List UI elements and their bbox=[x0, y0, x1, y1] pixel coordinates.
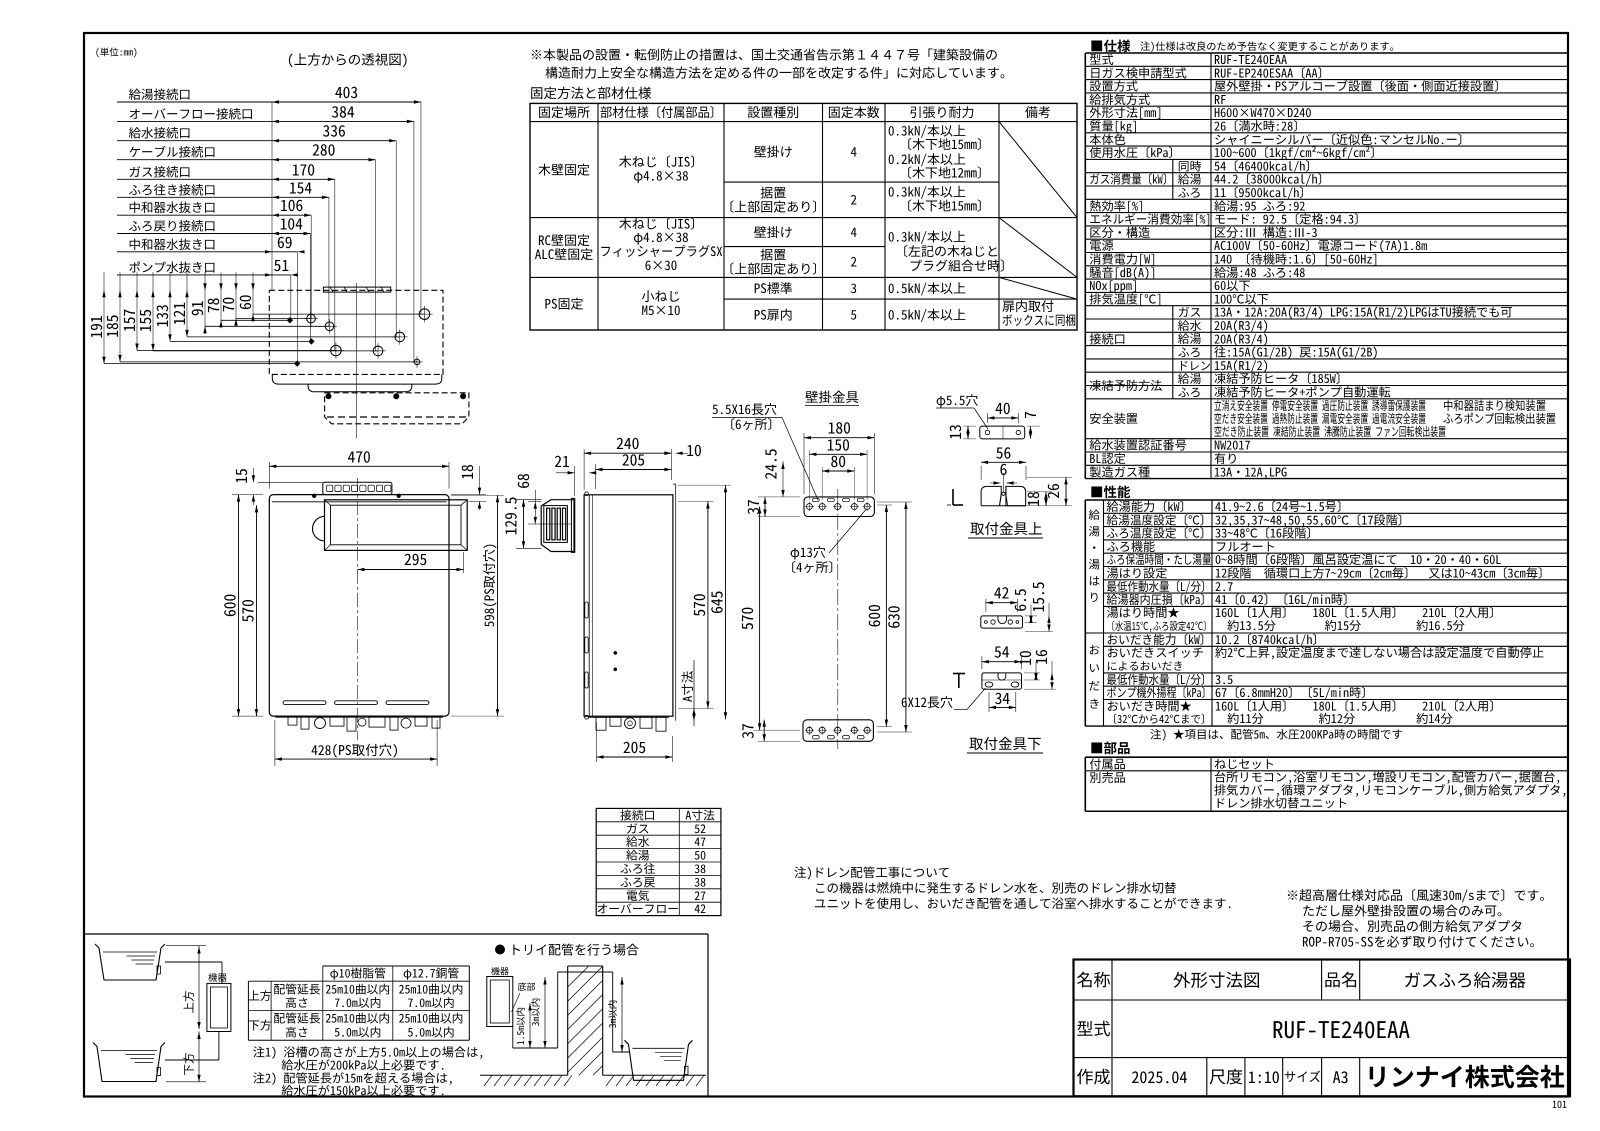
top view dimension extension verticals bbox=[420, 102, 422, 314]
svg-text:使用水圧〔kPa〕: 使用水圧〔kPa〕 bbox=[1089, 143, 1180, 161]
svg-text:570: 570 bbox=[237, 599, 259, 622]
svg-text:ドレン排水切替ユニット: ドレン排水切替ユニット bbox=[1214, 794, 1348, 812]
front view dim 600 bbox=[232, 494, 263, 496]
top view leader to port bbox=[253, 313, 425, 315]
svg-text:中和器水抜き口: 中和器水抜き口 bbox=[129, 234, 217, 253]
top view leader to port bbox=[137, 350, 336, 352]
side view bottom fittings bbox=[596, 717, 606, 730]
svg-text:機器: 機器 bbox=[208, 970, 228, 984]
top view pipe-space outline (dashed) bbox=[325, 393, 469, 424]
svg-text:21: 21 bbox=[554, 450, 570, 472]
top view horizontal dimensions 403..51 bbox=[272, 101, 421, 103]
rear view dim 150 bbox=[808, 450, 810, 500]
side view dim 129.5 bbox=[516, 547, 541, 549]
svg-text:・: ・ bbox=[1089, 540, 1101, 556]
dim 3m以内 left bbox=[544, 977, 546, 1048]
svg-text:428(PS取付穴): 428(PS取付穴) bbox=[311, 739, 399, 759]
svg-text:5.0m以内: 5.0m以内 bbox=[334, 1023, 381, 1040]
torii piping table bbox=[323, 965, 470, 967]
top view leader to port bbox=[104, 363, 297, 365]
svg-text:尺度: 尺度 bbox=[1209, 1063, 1243, 1088]
svg-text:部材仕様〔付属部品〕: 部材仕様〔付属部品〕 bbox=[600, 102, 722, 121]
bottom diagram box bbox=[84, 933, 708, 935]
rear view top bracket slots bbox=[812, 498, 819, 501]
side view dim 205 bottom bbox=[596, 722, 598, 762]
svg-text:16: 16 bbox=[1030, 649, 1052, 665]
svg-text:約2℃上昇,設定温度まで達しない場合は設定温度で自動停止: 約2℃上昇,設定温度まで達しない場合は設定温度で自動停止 bbox=[1215, 643, 1544, 661]
svg-text:26: 26 bbox=[1042, 483, 1064, 499]
top view wall bracket strip bbox=[323, 287, 390, 292]
bracket-dn lower plate bbox=[982, 673, 1022, 689]
svg-text:〔6ヶ所〕: 〔6ヶ所〕 bbox=[722, 414, 781, 433]
svg-text:安全装置: 安全装置 bbox=[1089, 409, 1138, 427]
svg-text:給水接続口: 給水接続口 bbox=[129, 123, 192, 142]
rear view dim 180 bbox=[803, 433, 805, 494]
front view dim 18 bbox=[479, 466, 481, 495]
svg-text:取付金具下: 取付金具下 bbox=[969, 733, 1042, 754]
svg-text:サイズ: サイズ bbox=[1284, 1067, 1321, 1086]
front view exhaust vent bbox=[325, 500, 468, 551]
svg-text:4: 4 bbox=[851, 222, 858, 241]
svg-text:上方: 上方 bbox=[248, 987, 272, 1004]
bracket-dn dim 15.5 bbox=[1025, 631, 1053, 633]
svg-text:壁掛け: 壁掛け bbox=[754, 142, 793, 161]
svg-text:作成: 作成 bbox=[1077, 1063, 1111, 1088]
rear view top mounting bracket bbox=[804, 497, 874, 517]
bracket-up dim 13 bbox=[963, 425, 976, 427]
side view hinges bbox=[585, 602, 588, 618]
side view body bbox=[584, 495, 673, 716]
svg-text:〔木下地15mm〕: 〔木下地15mm〕 bbox=[899, 196, 990, 215]
rear view dim 37 bottom bbox=[758, 740, 800, 742]
svg-text:0.5kN/本以上: 0.5kN/本以上 bbox=[888, 304, 966, 323]
svg-text:だ: だ bbox=[1089, 678, 1101, 694]
svg-text:備考: 備考 bbox=[1025, 102, 1051, 121]
svg-text:下方: 下方 bbox=[181, 1053, 197, 1076]
top view reference line bbox=[271, 102, 273, 290]
svg-text:5.0m以内: 5.0m以内 bbox=[407, 1023, 454, 1040]
bracket-up dim 40 bbox=[987, 413, 989, 423]
svg-text:4: 4 bbox=[851, 142, 858, 161]
svg-text:〔4ヶ所〕: 〔4ヶ所〕 bbox=[783, 557, 842, 576]
svg-text:ガス消費量〔kW〕: ガス消費量〔kW〕 bbox=[1089, 170, 1173, 188]
svg-text:プラグ組合せ時〕: プラグ組合せ時〕 bbox=[909, 256, 1013, 275]
svg-text:〔上部固定あり〕: 〔上部固定あり〕 bbox=[721, 196, 825, 215]
bracket-up plate bbox=[980, 426, 1025, 439]
svg-text:構造耐力上安全な構造方法を定める件の一部を改定する件」に対応: 構造耐力上安全な構造方法を定める件の一部を改定する件」に対応しています。 bbox=[545, 63, 1013, 82]
top view leader to port bbox=[205, 325, 330, 327]
front view dim 598 PS bbox=[451, 494, 504, 496]
rear view dim 37 top bbox=[758, 496, 800, 498]
svg-text:φ5.5穴: φ5.5穴 bbox=[936, 390, 978, 409]
dim 3m以内 right bbox=[621, 977, 623, 1052]
svg-text:ユニットを使用し、おいだき配管を通して浴室へ排水することがで: ユニットを使用し、おいだき配管を通して浴室へ排水することができます. bbox=[814, 893, 1233, 912]
bracket-up dim 26 bbox=[1027, 476, 1072, 478]
bracket-up dim 7 bbox=[1027, 425, 1040, 427]
svg-text:598(PS取付穴): 598(PS取付穴) bbox=[479, 543, 498, 628]
svg-text:RUF-TE240EAA: RUF-TE240EAA bbox=[1272, 1011, 1410, 1045]
front view top bracket bbox=[323, 482, 392, 494]
top view leader to port bbox=[120, 361, 417, 363]
svg-text:トリイ配管を行う場合: トリイ配管を行う場合 bbox=[509, 940, 639, 959]
svg-text:上方: 上方 bbox=[181, 991, 197, 1014]
svg-text:は: は bbox=[1089, 573, 1101, 589]
svg-text:13A・12A,LPG: 13A・12A,LPG bbox=[1214, 462, 1287, 480]
front view dim 428 PS bbox=[274, 720, 276, 766]
svg-text:470: 470 bbox=[348, 445, 371, 467]
svg-text:10: 10 bbox=[686, 439, 702, 461]
svg-text:オーバーフロー: オーバーフロー bbox=[596, 900, 679, 917]
svg-text:570: 570 bbox=[736, 607, 758, 630]
svg-text:ポンプ水抜き口: ポンプ水抜き口 bbox=[129, 257, 217, 276]
svg-text:24.5: 24.5 bbox=[760, 448, 782, 479]
dim 上方 bbox=[198, 946, 200, 1029]
svg-text:ケーブル接続口: ケーブル接続口 bbox=[129, 142, 217, 161]
svg-text:3m以内: 3m以内 bbox=[528, 998, 542, 1027]
svg-text:ALC壁固定: ALC壁固定 bbox=[535, 244, 594, 263]
svg-text:〔木下地12mm〕: 〔木下地12mm〕 bbox=[899, 163, 990, 182]
svg-text:オーバーフロー接続口: オーバーフロー接続口 bbox=[129, 103, 254, 122]
svg-text:101: 101 bbox=[1552, 1096, 1567, 1111]
svg-text:295: 295 bbox=[404, 548, 427, 570]
dim 1.5m以内 bbox=[529, 1003, 531, 1048]
svg-text:注) ★項目は、配管5m、水圧200KPa時の時間です: 注) ★項目は、配管5m、水圧200KPa時の時間です bbox=[1150, 727, 1403, 743]
fixing table grid bbox=[530, 103, 1077, 330]
svg-text:PS固定: PS固定 bbox=[544, 293, 583, 312]
front view body bbox=[269, 495, 449, 716]
svg-text:お: お bbox=[1089, 642, 1101, 658]
svg-text:ガス接続口: ガス接続口 bbox=[129, 161, 192, 180]
svg-text:69: 69 bbox=[277, 231, 293, 253]
svg-text:取付金具上: 取付金具上 bbox=[970, 518, 1043, 539]
bracket-up dim 18 bbox=[1027, 491, 1052, 493]
svg-text:木壁固定: 木壁固定 bbox=[538, 159, 590, 178]
svg-text:630: 630 bbox=[883, 605, 905, 628]
svg-text:底部: 底部 bbox=[518, 980, 536, 993]
svg-text:り: り bbox=[1089, 590, 1101, 606]
svg-text:645: 645 bbox=[706, 591, 728, 614]
top view front cover bulge bbox=[272, 374, 442, 384]
svg-text:60: 60 bbox=[234, 294, 256, 310]
svg-text:固定本数: 固定本数 bbox=[828, 102, 880, 121]
svg-text:54: 54 bbox=[994, 641, 1010, 663]
svg-text:6×30: 6×30 bbox=[645, 255, 678, 274]
svg-text:下方: 下方 bbox=[248, 1016, 272, 1033]
front view centerline bbox=[357, 478, 359, 740]
svg-text:M5×10: M5×10 bbox=[641, 300, 680, 319]
svg-text:ふろ: ふろ bbox=[1178, 184, 1202, 201]
svg-text:い: い bbox=[1089, 660, 1101, 676]
svg-text:品名: 品名 bbox=[1324, 966, 1358, 991]
svg-text:A寸法: A寸法 bbox=[677, 670, 696, 702]
svg-text:2025.04: 2025.04 bbox=[1131, 1064, 1187, 1088]
svg-text:13: 13 bbox=[944, 424, 966, 440]
spec table grid bbox=[1085, 52, 1568, 54]
svg-text:ガスふろ給湯器: ガスふろ給湯器 bbox=[1404, 968, 1527, 993]
bracket-dn corner icon bbox=[953, 673, 965, 675]
svg-text:湯: 湯 bbox=[1089, 524, 1101, 540]
top view centerline bbox=[356, 283, 358, 438]
bracket-up profile shape bbox=[981, 486, 1026, 505]
svg-text:ふろ戻り接続口: ふろ戻り接続口 bbox=[129, 216, 217, 235]
svg-text:(上方からの透視図): (上方からの透視図) bbox=[287, 49, 409, 69]
svg-text:15.5: 15.5 bbox=[1027, 581, 1049, 612]
fixing table remarks diagonals bbox=[999, 122, 1077, 218]
bracket-dn dim 42 bbox=[985, 599, 987, 612]
front view top screws bbox=[312, 494, 316, 498]
svg-text:12段階 循環口上方7~29cm〔2cm毎〕 又は10~: 12段階 循環口上方7~29cm〔2cm毎〕 又は10~43cm〔3cm毎〕 bbox=[1215, 564, 1550, 582]
svg-text:2: 2 bbox=[851, 252, 858, 271]
svg-text:※本製品の設置・転倒防止の措置は、国土交通省告示第１４４７号: ※本製品の設置・転倒防止の措置は、国土交通省告示第１４４７号「建築設備の bbox=[530, 45, 998, 64]
rear view dim 24.5 bbox=[782, 461, 784, 497]
svg-text:37: 37 bbox=[736, 723, 758, 739]
svg-text:き: き bbox=[1089, 696, 1101, 712]
title block row1 bbox=[1111, 960, 1113, 1097]
svg-text:PS扉内: PS扉内 bbox=[754, 304, 793, 323]
svg-text:ROP-R705-SSを必ず取り付けてください。: ROP-R705-SSを必ず取り付けてください。 bbox=[1302, 932, 1543, 951]
svg-text:給: 給 bbox=[1089, 507, 1101, 523]
svg-text:280: 280 bbox=[312, 139, 335, 161]
svg-text:ボックスに同梱: ボックスに同梱 bbox=[1002, 310, 1076, 329]
svg-text:ふろ往き接続口: ふろ往き接続口 bbox=[129, 179, 217, 198]
svg-text:68: 68 bbox=[512, 473, 534, 489]
side view dim 645 right bbox=[678, 484, 731, 486]
svg-text:42: 42 bbox=[694, 900, 706, 917]
svg-text:(単位:mm): (単位:mm) bbox=[95, 45, 138, 59]
title block frame bbox=[1074, 960, 1571, 1097]
svg-text:A3: A3 bbox=[1333, 1064, 1349, 1088]
rear view centerline bbox=[837, 489, 839, 749]
bracket-dn dim 10 bbox=[1024, 672, 1040, 674]
A-dimension table bbox=[596, 808, 721, 915]
svg-text:205: 205 bbox=[622, 449, 645, 471]
svg-text:51: 51 bbox=[274, 254, 290, 276]
svg-text:外形寸法図: 外形寸法図 bbox=[1173, 968, 1261, 993]
side view exhaust duct bbox=[541, 500, 574, 552]
svg-text:ふろポンプ回転検出装置: ふろポンプ回転検出装置 bbox=[1443, 409, 1556, 427]
top view leader to port bbox=[187, 336, 400, 338]
svg-text:名称: 名称 bbox=[1077, 966, 1111, 991]
bracket-up dim 56 bbox=[981, 461, 1026, 463]
parts table grid bbox=[1085, 756, 1568, 758]
svg-text:15: 15 bbox=[230, 468, 252, 484]
svg-text:引張り耐力: 引張り耐力 bbox=[909, 102, 974, 121]
title block row3 bbox=[1206, 1058, 1208, 1097]
top view leader to port bbox=[170, 340, 311, 342]
top view leader to port bbox=[236, 318, 311, 320]
rear view dim 600 bbox=[877, 504, 892, 506]
ground hatching bbox=[480, 1074, 568, 1076]
top view leader to port bbox=[153, 350, 378, 352]
rear view dim 630 bbox=[877, 501, 912, 503]
front view bottom slots bbox=[283, 701, 326, 705]
svg-text:42: 42 bbox=[994, 582, 1010, 604]
svg-text:205: 205 bbox=[623, 736, 646, 758]
svg-text:給水圧が150kPa以上必要です.: 給水圧が150kPa以上必要です. bbox=[281, 1081, 446, 1099]
svg-text:φ12.7銅管: φ12.7銅管 bbox=[403, 965, 459, 982]
svg-text:別売品: 別売品 bbox=[1089, 768, 1126, 786]
svg-text:0.5kN/本以上: 0.5kN/本以上 bbox=[888, 278, 966, 297]
bracket-dn dim 16 bbox=[1024, 688, 1056, 690]
top view pipe-space screws bbox=[326, 394, 331, 399]
side view dim 68 bbox=[528, 501, 541, 503]
bracket-up corner icon bbox=[952, 489, 954, 505]
svg-text:18: 18 bbox=[1022, 491, 1044, 507]
svg-text:高さ: 高さ bbox=[285, 1023, 309, 1040]
top view connection ports bbox=[419, 309, 430, 320]
bracket-dn upper plate bbox=[981, 616, 1023, 628]
lower bathtub bbox=[93, 1043, 165, 1082]
svg-text:129.5: 129.5 bbox=[500, 497, 522, 536]
svg-text:凍結予防方法: 凍結予防方法 bbox=[1089, 376, 1162, 394]
svg-text:壁掛け: 壁掛け bbox=[754, 222, 793, 241]
svg-text:〔上部固定あり〕: 〔上部固定あり〕 bbox=[721, 259, 825, 278]
dim 下方 bbox=[198, 1032, 200, 1082]
svg-text:排気温度[℃]: 排気温度[℃] bbox=[1089, 289, 1162, 307]
bracket-dn dim 34 bbox=[988, 692, 990, 712]
side view dim 240 bbox=[583, 449, 585, 490]
svg-text:製造ガス種: 製造ガス種 bbox=[1089, 462, 1150, 480]
front view top seam bbox=[272, 501, 447, 503]
svg-text:φ4.8×38: φ4.8×38 bbox=[633, 166, 688, 185]
right diagram piping bbox=[512, 1027, 514, 1049]
svg-text:接続口: 接続口 bbox=[1089, 329, 1126, 347]
svg-text:〔32℃から42℃まで〕: 〔32℃から42℃まで〕 bbox=[1107, 711, 1212, 727]
svg-text:機器: 機器 bbox=[491, 965, 509, 978]
performance table grid bbox=[1085, 499, 1568, 501]
svg-text:3m以内: 3m以内 bbox=[605, 1000, 619, 1029]
front view dim 570 bbox=[256, 505, 258, 716]
right tub bbox=[625, 1040, 693, 1080]
svg-text:リンナイ株式会社: リンナイ株式会社 bbox=[1365, 1058, 1565, 1094]
svg-text:80: 80 bbox=[830, 450, 846, 472]
svg-text:34: 34 bbox=[995, 687, 1011, 709]
svg-text:固定場所: 固定場所 bbox=[538, 102, 590, 121]
svg-text:3: 3 bbox=[851, 278, 858, 297]
svg-text:18: 18 bbox=[456, 464, 478, 480]
svg-text:1:10: 1:10 bbox=[1248, 1064, 1280, 1088]
front view vent left bump bbox=[313, 516, 325, 541]
svg-text:5: 5 bbox=[851, 304, 858, 323]
svg-text:1.5m以内: 1.5m以内 bbox=[513, 1007, 527, 1045]
svg-text:壁掛金具: 壁掛金具 bbox=[805, 386, 859, 406]
svg-text:設置種別: 設置種別 bbox=[747, 102, 799, 121]
svg-text:型式: 型式 bbox=[1077, 1015, 1111, 1040]
top view leader to port bbox=[221, 319, 290, 321]
wall hatched bbox=[567, 966, 569, 1075]
svg-text:給湯接続口: 給湯接続口 bbox=[129, 84, 192, 103]
rear view dim 570 bbox=[759, 507, 761, 731]
tub level extension lines bbox=[166, 944, 206, 946]
torii heading bbox=[495, 945, 505, 955]
side view dim A寸法 bbox=[692, 708, 695, 715]
front view bottom fittings bbox=[288, 717, 297, 725]
front view dim 295 bbox=[463, 552, 465, 573]
rear view dim 80 bbox=[821, 467, 823, 500]
rear view bottom mounting bracket bbox=[803, 720, 873, 742]
bracket-dn dim 54 bbox=[981, 656, 983, 669]
side view dim 205 bbox=[595, 464, 597, 489]
svg-text:湯: 湯 bbox=[1089, 557, 1101, 573]
svg-text:PS標準: PS標準 bbox=[754, 278, 793, 297]
top view left vertical dimensions 191..60 bbox=[103, 272, 105, 363]
svg-text:40: 40 bbox=[995, 397, 1011, 419]
svg-text:7: 7 bbox=[1019, 411, 1041, 419]
front view dim 470 bbox=[268, 462, 270, 489]
svg-text:ふろ: ふろ bbox=[1178, 383, 1202, 400]
bracket-dn dim 6.5 bbox=[1025, 615, 1037, 617]
side view dim 570 right bbox=[678, 501, 713, 503]
svg-text:固定方法と部材仕様: 固定方法と部材仕様 bbox=[530, 82, 652, 102]
svg-text:6X12長穴: 6X12長穴 bbox=[901, 692, 953, 711]
upper bathtub bbox=[95, 944, 165, 980]
top view unit outline (dashed) bbox=[269, 290, 443, 374]
svg-text:2: 2 bbox=[851, 190, 858, 209]
svg-text:屋外壁掛・PSアルコーブ設置〔後面・側面近接設置〕: 屋外壁掛・PSアルコーブ設置〔後面・側面近接設置〕 bbox=[1214, 77, 1507, 95]
front view dim 15 bbox=[252, 468, 254, 482]
svg-text:φ10樹脂管: φ10樹脂管 bbox=[330, 965, 386, 982]
side view dots bbox=[614, 651, 617, 654]
side view dim 10 bbox=[664, 452, 671, 455]
svg-text:中和器水抜き口: 中和器水抜き口 bbox=[129, 197, 217, 216]
svg-text:約11分 約12分 約14: 約11分 約12分 約14分 bbox=[1215, 709, 1453, 727]
side view dim 21 bbox=[574, 466, 576, 496]
piping left diagram bbox=[165, 961, 222, 963]
side view top-right step bbox=[675, 484, 677, 721]
